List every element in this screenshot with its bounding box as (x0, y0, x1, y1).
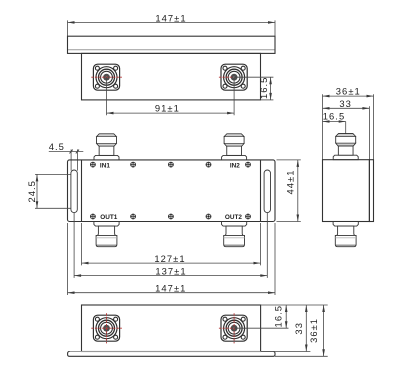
dim 4.5 oblique tick left (70, 150, 73, 154)
svg-text:16.5: 16.5 (258, 77, 269, 99)
IN2 center extension line down to 91 dim (233, 77, 235, 115)
dim 147±1 (top view) line (68, 21, 276, 23)
dim 4.5 line (49, 151, 84, 153)
svg-text:36±1: 36±1 (308, 318, 319, 343)
IN1 flange red centerline (top view) (91, 76, 122, 78)
dim 4.5 oblique tick right (76, 150, 79, 154)
N connector IN2 (front view, up) (222, 134, 247, 160)
dim 137±1 line (74, 275, 267, 277)
side connector centerline extension (345, 122, 347, 135)
IN2 center extension line right for 16.5 dim (234, 76, 273, 78)
svg-text:137±1: 137±1 (155, 265, 186, 276)
dim 127±1 extension right (260, 223, 262, 265)
dim 36±1 (bottom) arrow up (322, 305, 325, 312)
side view left extension/body edge line (322, 94, 324, 160)
IN2 flange red centerline (top view) (219, 76, 234, 78)
bottom view body bottom extension (261, 351, 311, 353)
svg-text:16.5: 16.5 (273, 305, 284, 327)
side body back edge extension (368, 106, 370, 159)
dim 36±1 arrow right (367, 95, 374, 98)
dim 36±1 arrow left (323, 95, 330, 98)
front view back plate outline (68, 160, 276, 222)
OUT2 center extension right for 16.5 dim (234, 327, 288, 329)
svg-text:IN2: IN2 (230, 162, 240, 169)
N connector bottom (side view) (333, 222, 358, 247)
svg-text:OUT1: OUT1 (100, 214, 117, 221)
dim 36±1 (bottom) arrow down (322, 349, 325, 356)
dim 16.5 (bottom) arrow down (285, 321, 288, 328)
dim 127±1 extension left (81, 223, 83, 265)
OUT1 red centerline horizontal (91, 327, 122, 329)
dim 44±1 line (297, 160, 299, 222)
dim 91±1 arrow right (227, 112, 234, 115)
dim 36±1 (bottom) line (323, 305, 325, 356)
N connector IN1 (front view, up) (94, 134, 119, 160)
top view mounting plate (68, 36, 276, 53)
dim 36±1 (side) line (323, 95, 374, 97)
dim 16.5 (side) line (323, 121, 346, 123)
flange connector IN2 (top view) (221, 64, 247, 90)
bottom view top edge extension (261, 304, 328, 306)
dim 33 (bottom) arrow down (305, 345, 308, 352)
dim 33 (bottom) line (305, 305, 307, 352)
dim 147±1 (front) arrow right (268, 291, 275, 294)
dim 4.5 extension lines down to slot (71, 149, 77, 170)
svg-text:24.5: 24.5 (26, 180, 37, 202)
dim 147±1 (front) extension left (67, 223, 69, 295)
side view body (323, 160, 370, 222)
bottom view body (82, 305, 261, 352)
svg-text:44±1: 44±1 (284, 170, 295, 195)
dim 137±1 extension left (from slot) (73, 213, 75, 278)
dim 24.5 line (36, 174, 38, 208)
dim 16.5 (top view) line (270, 77, 272, 100)
OUT1 red centerline vertical (106, 313, 108, 343)
dim 44±1 arrow up (297, 160, 300, 167)
svg-text:OUT2: OUT2 (225, 214, 242, 221)
dim 91±1 line (107, 112, 235, 114)
flange connector IN1 (top view) (93, 64, 119, 90)
bottom view plate bottom extension (275, 355, 328, 357)
dim 16.5 (bottom) line (285, 305, 287, 328)
svg-text:127±1: 127±1 (154, 253, 185, 264)
bottom view bar top tangent line (gray) (70, 351, 274, 353)
N connector OUT2 (front view, down) (222, 222, 247, 247)
dim 137±1 extension right (from slot) (266, 213, 268, 278)
dim 127±1 arrow left (82, 262, 89, 265)
dim 16.5 (top view) arrow down (269, 93, 272, 100)
side plate right edge + extension (373, 94, 375, 160)
dim 33 (side) line (323, 107, 370, 109)
flange connector OUT2 (bottom view) (221, 315, 247, 341)
dim 147±1 (front) arrow left (68, 291, 75, 294)
svg-text:91±1: 91±1 (155, 103, 180, 114)
body bottom extension line right (261, 99, 274, 101)
N connector OUT1 (front view, down) (94, 222, 119, 247)
flange connector OUT1 (bottom view) (93, 315, 119, 341)
dim 16.5 (side) arrow left (323, 120, 330, 123)
screws top row (front view) (90, 162, 95, 167)
bottom view mounting plate bar (68, 352, 275, 357)
front view body right edge (260, 160, 262, 222)
dim 91±1 arrow left (107, 112, 114, 115)
OUT2 red centerline horizontal (219, 327, 234, 329)
dim 33 (bottom) arrow up (305, 305, 308, 312)
dim 44±1 bottom extension (277, 221, 301, 223)
dim 16.5 (bottom) arrow up (285, 305, 288, 312)
IN1 center extension line down to 91 dim (106, 77, 108, 115)
svg-text:33: 33 (339, 98, 352, 109)
dim 44±1 top extension (277, 159, 301, 161)
dim 24.5 arrow down (36, 201, 39, 208)
dim 127±1 line (82, 262, 261, 264)
dim 147±1 arrow left (68, 21, 75, 24)
dim 16.5 (side) arrow right (339, 120, 346, 123)
left ear slot (71, 170, 77, 213)
dim 147±1 (front) line (68, 292, 276, 294)
dim 147±1 (front) extension right (274, 223, 276, 295)
dim 127±1 arrow right (254, 262, 261, 265)
dim 24.5 bottom extension line (35, 207, 71, 209)
svg-text:147±1: 147±1 (155, 12, 186, 23)
top view body (82, 53, 261, 100)
dim 33 arrow right (362, 107, 369, 110)
svg-text:16.5: 16.5 (323, 111, 345, 122)
N connector top (side view) (333, 134, 358, 160)
svg-text:33: 33 (293, 322, 304, 335)
dim 24.5 arrow up (36, 174, 39, 181)
dim 137±1 arrow left (74, 274, 81, 277)
screws bottom row (front view) (90, 214, 95, 219)
svg-text:36±1: 36±1 (336, 86, 361, 97)
dim 33 arrow left (323, 107, 330, 110)
extension line left (plate to dim) (67, 20, 69, 36)
OUT2 red centerline vertical (233, 313, 235, 343)
right ear slot (264, 170, 270, 213)
dim 24.5 top extension line (35, 173, 71, 175)
svg-text:147±1: 147±1 (155, 282, 186, 293)
svg-text:IN1: IN1 (100, 162, 110, 169)
top view plate inner gray line (68, 49, 275, 51)
dim 137±1 arrow right (260, 274, 267, 277)
dim 147±1 arrow right (268, 21, 275, 24)
dim 44±1 arrow down (297, 215, 300, 222)
side view plate strip (369, 160, 373, 222)
dim 16.5 (top view) arrow up (269, 77, 272, 84)
svg-text:4.5: 4.5 (49, 141, 65, 152)
extension line right (plate to dim) (274, 20, 276, 36)
front view body left edge (81, 160, 83, 222)
